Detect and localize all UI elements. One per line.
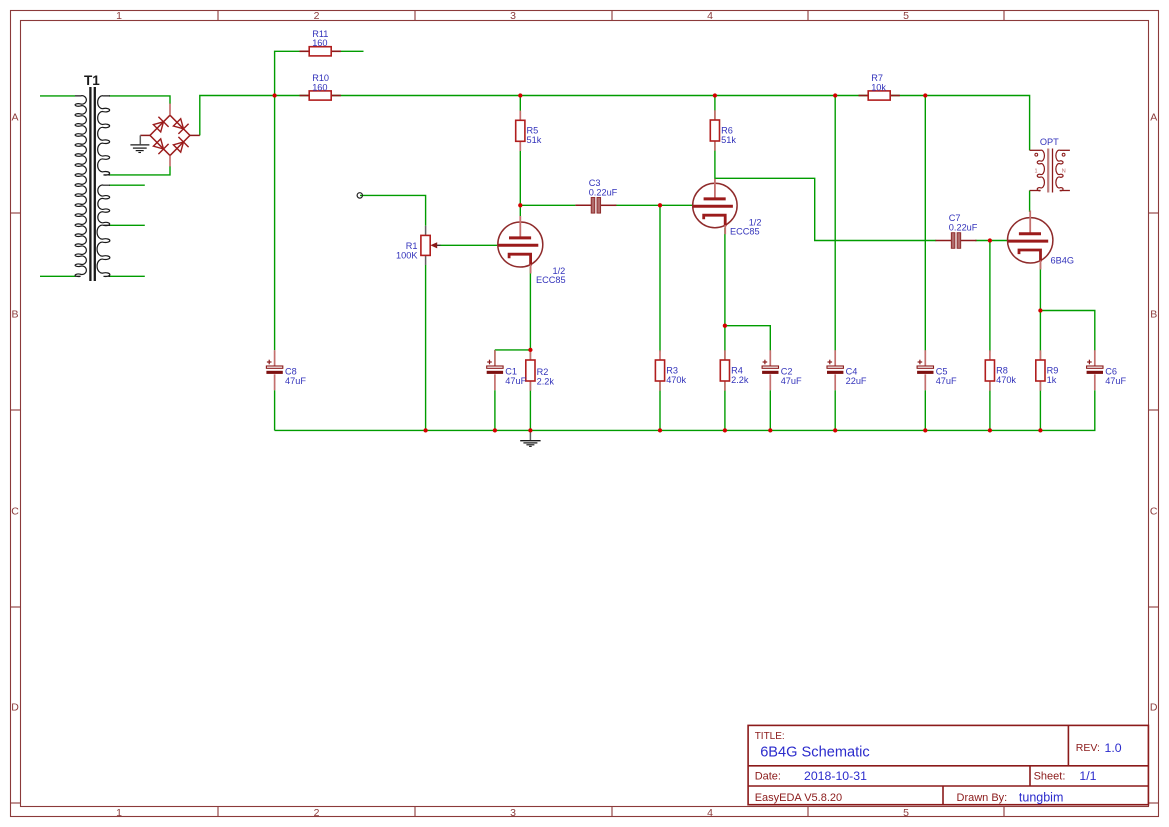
node R5 top — [518, 93, 522, 97]
wire C5 bottom — [924, 390, 926, 430]
capacitor C5 — [917, 350, 957, 390]
wire R3 bottom — [659, 382, 661, 431]
bridge rectifier diodes — [140, 104, 200, 167]
node R8 top — [988, 238, 992, 242]
diode D1 top-left — [153, 122, 163, 132]
wire R8 top — [989, 241, 991, 352]
input terminal (open) — [357, 193, 362, 198]
node rail R1 — [423, 428, 427, 432]
node rail C4 — [833, 428, 837, 432]
wire R2 bottom — [529, 382, 531, 431]
svg-text:EasyEDA V5.8.20: EasyEDA V5.8.20 — [755, 792, 842, 804]
resistor R11 — [300, 29, 341, 56]
transformer OPT — [1030, 137, 1070, 193]
wire C1 bottom — [494, 390, 496, 430]
resistor R5 — [516, 111, 542, 151]
wire plate U2 to C7 — [715, 178, 936, 240]
svg-text:N: N — [1062, 168, 1066, 174]
capacitor C1 — [487, 350, 527, 390]
svg-text:2.2k: 2.2k — [731, 375, 749, 385]
svg-text:22uF: 22uF — [846, 376, 867, 386]
node B+ / C8 — [272, 93, 276, 97]
node U3 cathode — [1038, 308, 1042, 312]
resistor R10 — [300, 73, 341, 100]
node C5 top — [923, 93, 927, 97]
title block — [748, 725, 1148, 804]
wire OPT to plate U3 — [1029, 191, 1031, 213]
wire R9 bottom — [1039, 382, 1041, 431]
svg-text:2: 2 — [314, 10, 320, 22]
svg-text:0.22uF: 0.22uF — [949, 223, 978, 233]
wire C1 top — [494, 350, 496, 366]
node R3 top — [658, 203, 662, 207]
svg-text:D: D — [1150, 702, 1158, 714]
svg-text:B: B — [11, 309, 18, 321]
node U2 cathode — [723, 324, 727, 328]
svg-text:ECC85: ECC85 — [730, 227, 760, 237]
capacitor C4 — [827, 350, 867, 390]
wire secondary tap 2 — [109, 224, 145, 226]
svg-text:Date:: Date: — [755, 770, 781, 782]
diode D3 bottom-left — [153, 139, 163, 149]
svg-text:47uF: 47uF — [936, 376, 957, 386]
svg-text:10k: 10k — [871, 82, 886, 92]
svg-text:T1: T1 — [84, 73, 100, 88]
tube U3 6B4G — [1007, 211, 1074, 270]
resistor R3 — [655, 350, 686, 390]
svg-text:C: C — [11, 506, 19, 518]
svg-text:Sheet:: Sheet: — [1034, 770, 1066, 782]
svg-text:1.0: 1.0 — [1105, 741, 1122, 755]
node rail C5 — [923, 428, 927, 432]
node rail R8 — [988, 428, 992, 432]
resistor R9 — [1036, 350, 1059, 390]
svg-text:160: 160 — [312, 38, 327, 48]
tube U1 1/2 ECC85 — [498, 216, 566, 285]
wire secondary tap 1 — [109, 184, 145, 186]
svg-text:470k: 470k — [996, 375, 1016, 385]
wire to C6 — [1040, 311, 1094, 366]
tube U2 1/2 ECC85 — [693, 179, 762, 237]
wire R1 wiper to grid U1 — [440, 244, 498, 246]
wire R5 column — [519, 96, 521, 218]
wire primary top lead — [40, 95, 75, 97]
wire C8 column — [274, 96, 276, 351]
svg-text:OPT: OPT — [1040, 137, 1059, 147]
svg-text:Drawn By:: Drawn By: — [957, 792, 1008, 804]
diode D4 bottom-right — [173, 142, 183, 152]
transformer T1 — [75, 73, 110, 281]
svg-text:A: A — [1150, 112, 1157, 124]
wire C3 to grid U2 — [614, 204, 693, 206]
svg-text:D: D — [11, 702, 19, 714]
svg-text:tungbim: tungbim — [1019, 791, 1063, 805]
svg-text:1: 1 — [1035, 168, 1038, 174]
svg-text:1k: 1k — [1047, 375, 1057, 385]
wire primary bottom lead — [40, 275, 75, 277]
node R6 top — [713, 93, 717, 97]
diode D2 top-right — [173, 119, 183, 129]
capacitor C6 — [1087, 350, 1127, 390]
wire secondary bottom lead — [109, 275, 145, 277]
svg-text:47uF: 47uF — [505, 376, 526, 386]
svg-text:1: 1 — [116, 10, 122, 22]
node rail R3 — [658, 428, 662, 432]
svg-text:6B4G: 6B4G — [1051, 256, 1075, 266]
wire C4 column — [834, 96, 836, 366]
resistor R8 — [985, 350, 1016, 390]
wire input to R1 — [360, 195, 426, 225]
node rail R2 — [528, 428, 532, 432]
svg-text:REV:: REV: — [1076, 742, 1100, 754]
svg-text:ECC85: ECC85 — [536, 275, 566, 285]
svg-text:TITLE:: TITLE: — [755, 731, 785, 742]
svg-text:3: 3 — [510, 10, 516, 22]
svg-text:4: 4 — [707, 807, 713, 819]
svg-text:4: 4 — [707, 10, 713, 22]
wire cathode U2 to R4 — [724, 228, 726, 360]
node rail R4 — [723, 428, 727, 432]
wire to C1 — [495, 349, 531, 351]
wire C5 column — [924, 96, 926, 366]
resistor R7 — [859, 73, 900, 100]
wire ground rail — [275, 390, 1095, 430]
wire plate U1 to C3 — [520, 204, 575, 206]
svg-text:47uF: 47uF — [1105, 376, 1126, 386]
svg-text:2.2k: 2.2k — [537, 376, 555, 386]
wire secondary-top to bridge AC+ — [109, 96, 170, 104]
wire R6 column — [714, 96, 716, 181]
wire C8 to ground rail — [274, 390, 276, 430]
svg-text:51k: 51k — [721, 135, 736, 145]
svg-text:2018-10-31: 2018-10-31 — [804, 769, 867, 783]
svg-text:B: B — [1150, 309, 1157, 321]
node rail C2 — [768, 428, 772, 432]
wire R3 top — [659, 205, 661, 351]
capacitor C8 — [266, 350, 306, 390]
wire B+ top rail — [200, 96, 1030, 151]
svg-text:100K: 100K — [396, 250, 418, 260]
svg-text:1: 1 — [116, 807, 122, 819]
svg-text:6B4G Schematic: 6B4G Schematic — [760, 745, 870, 761]
ground (bridge) — [130, 135, 149, 152]
wire R8 bottom — [989, 382, 991, 431]
svg-text:470k: 470k — [666, 375, 686, 385]
svg-text:160: 160 — [312, 82, 327, 92]
wire secondary-top bottom to bridge AC- — [109, 166, 170, 175]
wire R11 branch — [275, 51, 364, 95]
node U1 plate — [518, 203, 522, 207]
ground (cathode R2) — [520, 430, 540, 446]
wire R1 bottom to rail — [425, 265, 427, 430]
wire C7 to grid U3 — [975, 240, 1008, 242]
capacitor C3 — [575, 178, 617, 213]
svg-text:51k: 51k — [527, 135, 542, 145]
wire cathode U3 to R9 — [1039, 263, 1041, 360]
resistor R6 — [710, 110, 736, 150]
wire cathode U1 to R2 — [529, 267, 531, 360]
svg-text:5: 5 — [903, 10, 909, 22]
svg-text:C: C — [1150, 506, 1158, 518]
svg-text:3: 3 — [510, 807, 516, 819]
potentiometer R1 — [396, 226, 440, 265]
svg-text:1/1: 1/1 — [1079, 769, 1096, 783]
svg-text:2: 2 — [314, 807, 320, 819]
resistor R4 — [720, 350, 749, 390]
svg-text:0.22uF: 0.22uF — [589, 187, 618, 197]
wire R4 bottom — [724, 382, 726, 431]
resistor R2 — [526, 350, 555, 390]
wire C2 bottom — [769, 390, 771, 430]
node rail R9 — [1038, 428, 1042, 432]
capacitor C2 — [762, 350, 802, 390]
wire C4 bottom — [834, 390, 836, 430]
svg-text:47uF: 47uF — [781, 376, 802, 386]
node C4 top — [833, 93, 837, 97]
node rail C1 — [493, 428, 497, 432]
svg-text:A: A — [11, 112, 18, 124]
svg-text:47uF: 47uF — [285, 376, 306, 386]
node U1 cathode — [528, 348, 532, 352]
capacitor C7 — [936, 213, 978, 248]
wire to C2 — [725, 326, 770, 366]
svg-text:5: 5 — [903, 807, 909, 819]
